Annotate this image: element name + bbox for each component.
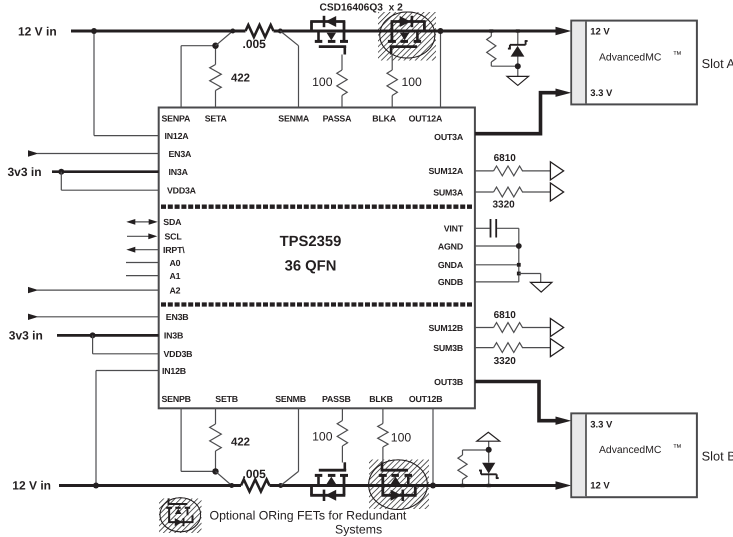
svg-text:SENMB: SENMB	[275, 394, 306, 404]
svg-text:AdvancedMC: AdvancedMC	[599, 52, 662, 63]
svg-text:CSD16406Q3 x 2: CSD16406Q3 x 2	[320, 2, 404, 13]
svg-text:BLKA: BLKA	[372, 114, 396, 124]
svg-text:36 QFN: 36 QFN	[285, 259, 337, 275]
svg-text:Slot A: Slot A	[702, 56, 733, 71]
svg-text:AGND: AGND	[438, 241, 463, 251]
svg-text:IRPT\: IRPT\	[163, 245, 185, 255]
svg-text:BLKB: BLKB	[369, 394, 393, 404]
svg-text:EN3A: EN3A	[169, 149, 193, 159]
svg-text:12 V: 12 V	[590, 481, 610, 492]
svg-text:A0: A0	[170, 258, 181, 268]
svg-text:12 V: 12 V	[590, 27, 610, 38]
svg-text:422: 422	[231, 72, 250, 84]
svg-text:OUT3B: OUT3B	[434, 377, 463, 387]
svg-text:3v3 in: 3v3 in	[9, 329, 43, 343]
svg-text:EN3B: EN3B	[166, 312, 189, 322]
svg-text:SENMA: SENMA	[278, 114, 310, 124]
svg-text:3v3 in: 3v3 in	[8, 165, 42, 179]
svg-text:3320: 3320	[493, 200, 516, 211]
svg-text:SUM3B: SUM3B	[433, 343, 463, 353]
svg-text:100: 100	[312, 75, 333, 89]
svg-text:VDD3A: VDD3A	[167, 186, 197, 196]
svg-text:OUT12B: OUT12B	[409, 394, 443, 404]
svg-text:GNDB: GNDB	[438, 277, 463, 287]
svg-text:100: 100	[391, 431, 412, 445]
svg-text:SCL: SCL	[165, 232, 183, 242]
svg-text:Slot B: Slot B	[702, 449, 733, 464]
svg-text:3320: 3320	[494, 356, 517, 367]
svg-text:SDA: SDA	[163, 217, 182, 227]
svg-text:TPS2359: TPS2359	[280, 234, 342, 250]
svg-text:PASSB: PASSB	[322, 394, 351, 404]
svg-text:A1: A1	[170, 271, 181, 281]
svg-text:IN3A: IN3A	[169, 167, 189, 177]
svg-text:AdvancedMC: AdvancedMC	[599, 445, 662, 456]
svg-text:Optional ORing FETs for Redund: Optional ORing FETs for Redundant	[210, 509, 407, 523]
svg-text:6810: 6810	[494, 310, 517, 321]
svg-text:SENPA: SENPA	[162, 114, 192, 124]
svg-text:IN12A: IN12A	[165, 131, 190, 141]
svg-text:PASSA: PASSA	[323, 114, 353, 124]
svg-text:VINT: VINT	[444, 224, 464, 234]
svg-text:™: ™	[673, 442, 682, 452]
svg-text:SETB: SETB	[215, 394, 238, 404]
svg-text:.005: .005	[243, 467, 267, 481]
svg-text:12 V in: 12 V in	[18, 24, 57, 38]
svg-text:GNDA: GNDA	[438, 260, 464, 270]
svg-text:SENPB: SENPB	[162, 394, 191, 404]
svg-text:IN3B: IN3B	[164, 331, 183, 341]
svg-text:SUM12B: SUM12B	[429, 323, 464, 333]
svg-text:12 V in: 12 V in	[12, 478, 51, 492]
svg-text:VDD3B: VDD3B	[164, 349, 193, 359]
svg-text:SUM12A: SUM12A	[429, 166, 464, 176]
svg-text:Systems: Systems	[335, 523, 382, 537]
svg-text:SUM3A: SUM3A	[433, 187, 464, 197]
svg-text:100: 100	[312, 430, 333, 444]
svg-text:OUT12A: OUT12A	[409, 114, 443, 124]
svg-text:100: 100	[402, 75, 423, 89]
svg-text:3.3 V: 3.3 V	[590, 419, 613, 430]
svg-text:™: ™	[673, 50, 682, 60]
svg-text:6810: 6810	[494, 153, 517, 164]
svg-text:422: 422	[231, 437, 250, 449]
svg-text:SETA: SETA	[205, 114, 228, 124]
svg-text:A2: A2	[170, 285, 181, 295]
svg-text:OUT3A: OUT3A	[434, 132, 464, 142]
svg-text:3.3 V: 3.3 V	[590, 88, 613, 99]
svg-text:.005: .005	[243, 37, 267, 51]
svg-text:IN12B: IN12B	[162, 366, 186, 376]
